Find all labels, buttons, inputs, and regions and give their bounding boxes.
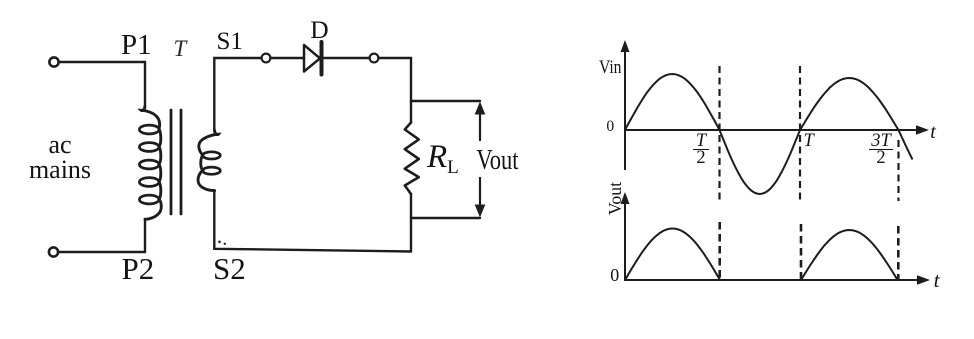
Vout y-axis arrowhead — [621, 192, 630, 204]
terminal top-left — [49, 57, 58, 66]
Vout x-axis arrowhead — [917, 275, 930, 285]
stray dots near S2 — [218, 241, 221, 244]
vout arrow line upper — [479, 112, 481, 140]
label Vout circuit — [474, 145, 521, 177]
label Vout graph rotated — [605, 181, 626, 214]
Vout y-axis — [624, 203, 626, 281]
Vout dashed line 3T/2 — [897, 226, 900, 279]
Vin x-axis arrowhead — [916, 125, 929, 135]
wire to top-right corner — [379, 58, 412, 123]
diode D — [304, 45, 320, 72]
primary winding loop — [139, 125, 159, 134]
resistor RL — [405, 123, 419, 195]
terminal diode right — [370, 54, 379, 63]
label RL resistor — [427, 139, 459, 179]
Vin dashed line T — [799, 66, 801, 201]
label t Vin axis — [930, 121, 936, 144]
wire primary top vertical — [144, 62, 146, 108]
terminal diode left — [262, 54, 271, 63]
wire primary bottom vertical — [144, 219, 146, 252]
label D diode — [310, 15, 328, 45]
label P1 — [121, 29, 152, 62]
label T/2 fraction — [693, 133, 709, 166]
wire bottom stub to vout arrow — [411, 217, 480, 219]
vout arrow line lower — [479, 176, 481, 208]
Vin dashed line 3T/2 — [897, 140, 899, 201]
label 3T/2 fraction — [869, 133, 893, 166]
label Vin graph — [599, 57, 621, 79]
wire S1 top — [214, 58, 261, 131]
primary winding loop — [139, 160, 159, 169]
terminal bottom-left — [49, 247, 58, 256]
Vout x-axis — [625, 279, 920, 281]
primary winding loop — [139, 143, 159, 152]
inductor primary winding hooks and connectors — [141, 107, 161, 220]
wire diode to terminal — [324, 57, 370, 59]
primary winding loop — [139, 195, 159, 204]
label P2 — [122, 251, 155, 287]
Vin sine curve — [625, 74, 913, 194]
label T transformer — [174, 36, 187, 62]
Vout dashed line T — [800, 224, 803, 279]
Vout hump 2 — [801, 230, 898, 280]
Vin dashed line T/2 — [718, 66, 720, 203]
wire top stub to vout arrow — [411, 100, 480, 102]
label 0 Vin graph — [606, 118, 614, 136]
Vout dashed line T/2 — [718, 222, 721, 279]
label S2 — [213, 251, 246, 287]
wire bottom-left horizontal — [58, 251, 145, 253]
wire resistor bottom — [410, 194, 412, 252]
label t Vout axis — [934, 268, 940, 293]
wire secondary bottom return — [214, 190, 411, 251]
wire to diode — [271, 57, 304, 59]
secondary winding loop — [203, 152, 221, 159]
vout arrowhead down — [475, 205, 486, 218]
label T Vin axis — [804, 131, 814, 152]
label ac mains — [10, 132, 110, 182]
Vin y-axis — [624, 50, 626, 170]
primary winding loop — [139, 178, 159, 187]
secondary winding loop — [203, 167, 221, 174]
label S1 — [217, 28, 243, 56]
transformer core — [171, 110, 181, 214]
Vout hump 1 — [625, 229, 720, 281]
label 0 Vout graph — [610, 265, 619, 286]
Vin y-axis arrowhead — [621, 40, 630, 52]
inductor secondary winding hooks and connectors — [198, 131, 218, 191]
vout arrowhead up — [475, 102, 486, 115]
wire top-left horizontal — [59, 61, 145, 63]
graphs — [625, 50, 920, 281]
Vin x-axis — [625, 129, 919, 131]
